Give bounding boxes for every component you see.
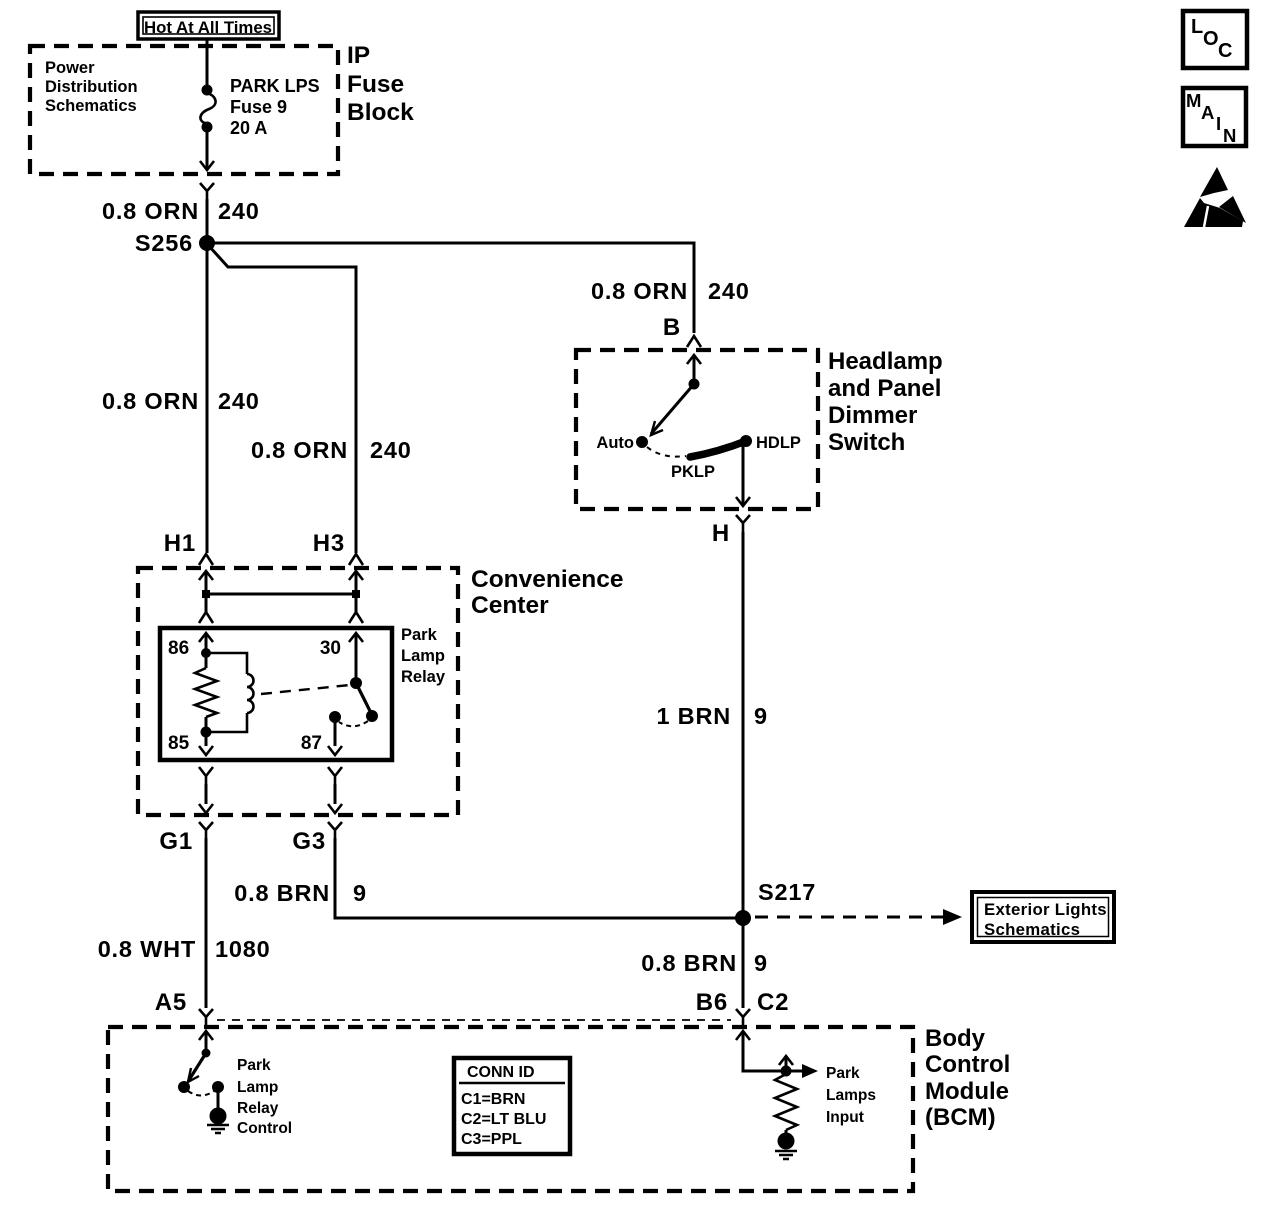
ground at relay control	[211, 1109, 225, 1123]
Park Lamp Relay box	[160, 628, 392, 760]
Convenience Center text	[471, 566, 624, 619]
Auto contact dot	[638, 438, 647, 447]
svg-text:I: I	[1216, 113, 1221, 134]
wire G1 down to A5: 0.8 WHT 1080	[205, 838, 208, 1008]
arrow up inside dimmer box	[687, 355, 701, 364]
ESD warning symbol	[1184, 167, 1246, 227]
ground at park lamps input	[779, 1134, 793, 1148]
svg-text:and Panel: and Panel	[828, 375, 941, 402]
svg-text:S256: S256	[135, 230, 193, 256]
fuse PARK LPS Fuse 9 20A	[203, 86, 211, 94]
relay coil	[206, 653, 247, 674]
svg-text:C3=PPL: C3=PPL	[461, 1131, 522, 1148]
wire S256 to dimmer switch (top horizontal)	[207, 243, 694, 333]
dashed arc to pin 87	[339, 721, 368, 726]
svg-text:Distribution: Distribution	[45, 78, 138, 96]
svg-text:C: C	[1218, 40, 1232, 62]
IP fuse block dashed box	[30, 46, 338, 174]
park lamps input node	[782, 1067, 790, 1075]
Headlamp and Panel Dimmer Switch text	[828, 348, 943, 456]
arrow up inside conv box (left)	[199, 571, 213, 580]
wire G3 to S217: 0.8 BRN 9	[335, 838, 743, 918]
bus junction dots + bus wire	[202, 590, 210, 598]
Headlamp and Panel Dimmer Switch dashed box	[576, 350, 818, 509]
arrow up inside conv box (right)	[349, 571, 363, 580]
label 0.8 ORN 240 (right top)	[591, 278, 750, 304]
svg-text:Convenience: Convenience	[471, 566, 624, 593]
svg-text:L: L	[1191, 16, 1203, 38]
IP Fuse Block text	[347, 42, 414, 126]
svg-text:30: 30	[320, 638, 341, 659]
PARK LPS Fuse 9 20 A text	[230, 76, 320, 138]
dashed linkage coil to contacts	[261, 685, 350, 694]
Park Lamp Relay Control text	[237, 1057, 292, 1137]
Power Distribution Schematics text	[45, 59, 138, 115]
wire HDLP down to H	[742, 443, 745, 506]
svg-text:0.8 ORN: 0.8 ORN	[591, 278, 688, 304]
connector chevron B	[687, 336, 701, 347]
svg-text:O: O	[1203, 28, 1219, 50]
arrow up inside BCM (B6/C2)	[736, 1031, 750, 1040]
svg-text:0.8 BRN: 0.8 BRN	[234, 880, 330, 906]
svg-text:240: 240	[218, 388, 260, 414]
svg-text:Fuse 9: Fuse 9	[230, 97, 287, 117]
svg-text:20 A: 20 A	[230, 118, 267, 138]
svg-text:1 BRN: 1 BRN	[656, 703, 731, 729]
pin 85	[202, 728, 210, 736]
svg-text:9: 9	[754, 703, 768, 729]
dashed wire to Exterior Lights Schematics	[755, 916, 944, 919]
svg-text:Schematics: Schematics	[45, 97, 137, 115]
svg-text:H1: H1	[164, 530, 196, 557]
svg-text:PARK LPS: PARK LPS	[230, 76, 320, 96]
relay switch blade	[352, 679, 361, 688]
svg-text:Module: Module	[925, 1078, 1009, 1105]
C2 connector dashed face line	[217, 1019, 731, 1021]
svg-text:H: H	[712, 520, 730, 547]
splice S217	[737, 912, 750, 925]
LOC icon	[1183, 11, 1247, 68]
svg-text:HDLP: HDLP	[756, 434, 801, 452]
svg-text:Lamps: Lamps	[826, 1087, 876, 1104]
svg-text:B6: B6	[696, 989, 728, 1016]
svg-text:240: 240	[370, 437, 412, 463]
wire 0.8 ORN 240 to S256	[206, 199, 209, 243]
svg-text:Body: Body	[925, 1025, 986, 1052]
CONN ID table	[454, 1058, 570, 1154]
Park Lamps Input text	[826, 1065, 876, 1126]
svg-text:240: 240	[218, 198, 260, 224]
svg-text:Fuse: Fuse	[347, 71, 404, 98]
svg-text:B: B	[663, 314, 681, 341]
label 0.8 ORN 240 (middle)	[251, 437, 412, 463]
svg-text:85: 85	[168, 733, 190, 754]
svg-text:Lamp: Lamp	[401, 647, 445, 665]
svg-text:240: 240	[708, 278, 750, 304]
svg-text:Block: Block	[347, 99, 414, 126]
switch blade toward Auto	[651, 384, 694, 434]
svg-text:G3: G3	[292, 828, 326, 855]
svg-text:Hot At All Times: Hot At All Times	[144, 18, 272, 37]
wire H down to S217: 1 BRN 9	[742, 532, 745, 918]
svg-text:A: A	[1201, 102, 1214, 123]
pin 86	[199, 633, 213, 642]
svg-text:0.8 ORN: 0.8 ORN	[251, 437, 348, 463]
svg-text:Relay: Relay	[401, 668, 446, 686]
svg-text:CONN ID: CONN ID	[467, 1064, 535, 1081]
svg-text:9: 9	[754, 950, 768, 976]
svg-text:Control: Control	[237, 1120, 292, 1137]
pin 30	[349, 633, 363, 642]
svg-text:0.8 BRN: 0.8 BRN	[641, 950, 737, 976]
svg-text:Power: Power	[45, 59, 95, 77]
svg-text:Schematics: Schematics	[984, 920, 1080, 939]
park lamp relay control switch	[203, 1050, 209, 1056]
svg-text:Exterior Lights: Exterior Lights	[984, 900, 1107, 919]
svg-text:C2: C2	[757, 989, 789, 1016]
svg-text:Headlamp: Headlamp	[828, 348, 943, 375]
svg-text:Switch: Switch	[828, 429, 905, 456]
svg-text:1080: 1080	[215, 936, 270, 962]
svg-text:Auto: Auto	[596, 434, 634, 452]
svg-text:Lamp: Lamp	[237, 1079, 278, 1096]
svg-text:PKLP: PKLP	[671, 463, 715, 481]
arrow down at fuse exit	[200, 161, 214, 170]
label 0.8 ORN 240	[102, 198, 260, 224]
svg-text:N: N	[1223, 125, 1236, 146]
svg-text:0.8 ORN: 0.8 ORN	[102, 198, 199, 224]
Convenience Center dashed box	[138, 568, 458, 815]
svg-text:9: 9	[353, 880, 367, 906]
connectors below relay box (left)	[199, 767, 213, 784]
wire from Hot At All Times into fuse	[206, 39, 209, 86]
svg-text:Relay: Relay	[237, 1100, 279, 1117]
svg-text:Park: Park	[401, 626, 438, 644]
svg-text:M: M	[1186, 90, 1201, 111]
Hot At All Times label box	[138, 12, 279, 39]
svg-text:Input: Input	[826, 1109, 864, 1126]
svg-text:Center: Center	[471, 592, 549, 619]
svg-text:Control: Control	[925, 1051, 1010, 1078]
park lamps input pull resistor	[775, 1074, 797, 1130]
wire S256 to H3	[209, 246, 356, 553]
wire S217 down to B6: 0.8 BRN 9	[742, 918, 745, 1008]
svg-text:A5: A5	[155, 989, 187, 1016]
svg-text:IP: IP	[347, 42, 370, 69]
svg-text:Park: Park	[826, 1065, 860, 1082]
svg-text:S217: S217	[758, 879, 816, 905]
Exterior Lights Schematics box	[972, 892, 1114, 942]
dashed arc Auto to PKLP	[647, 447, 686, 457]
svg-text:87: 87	[301, 733, 322, 754]
HDLP contact dot	[742, 437, 751, 446]
svg-text:H3: H3	[313, 530, 345, 557]
PKLP thick wiper arc	[690, 441, 746, 457]
connector Y below fuse block	[200, 183, 214, 199]
svg-text:C1=BRN: C1=BRN	[461, 1091, 525, 1108]
svg-text:(BCM): (BCM)	[925, 1104, 996, 1131]
switch pivot dot	[690, 380, 698, 388]
MAIN icon	[1183, 88, 1246, 146]
svg-text:86: 86	[168, 638, 189, 659]
arrow up inside BCM (A5)	[199, 1031, 213, 1040]
relay coil resistor	[205, 653, 208, 668]
svg-text:0.8 ORN: 0.8 ORN	[102, 388, 199, 414]
Body Control Module (BCM) text	[925, 1025, 1010, 1131]
svg-text:Park: Park	[237, 1057, 271, 1074]
svg-text:Dimmer: Dimmer	[828, 402, 917, 429]
Park Lamp Relay text	[401, 626, 446, 686]
wires down to relay connectors	[205, 594, 208, 612]
wire S256 down to H1	[206, 243, 209, 553]
svg-text:G1: G1	[159, 828, 193, 855]
connectors below relay box (right)	[328, 767, 342, 784]
label 0.8 ORN 240 (left)	[102, 388, 260, 414]
svg-text:0.8 WHT: 0.8 WHT	[98, 936, 196, 962]
svg-text:C2=LT BLU: C2=LT BLU	[461, 1111, 546, 1128]
Body Control Module dashed box	[108, 1027, 913, 1191]
pin 87	[331, 713, 340, 722]
